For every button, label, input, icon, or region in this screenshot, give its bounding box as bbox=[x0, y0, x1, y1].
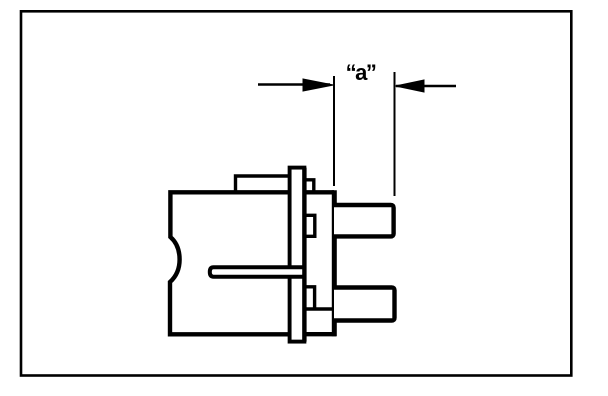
step top-right of flange bbox=[305, 180, 314, 191]
dimension arrow left bbox=[258, 79, 334, 91]
flange right edge over rod bbox=[302, 168, 306, 342]
upper clip tab bbox=[305, 215, 315, 236]
mounting tab top-left bbox=[236, 176, 291, 192]
lower tab bottom line to face bbox=[305, 307, 337, 310]
terminal blade top bbox=[334, 205, 394, 236]
rear body right face bbox=[332, 190, 337, 336]
mounting flange plate bbox=[290, 168, 305, 342]
body bottom edge right of flange bbox=[305, 332, 336, 336]
body top edge right of flange bbox=[305, 190, 334, 194]
lower clip tab bbox=[305, 287, 315, 309]
extension line right bbox=[394, 72, 396, 196]
terminal blade bottom bbox=[334, 288, 395, 321]
extension line left bbox=[333, 76, 335, 186]
svg-text:“a”: “a” bbox=[346, 60, 376, 85]
dimension arrow right bbox=[396, 80, 457, 92]
switch body outline with break notch bbox=[170, 192, 288, 334]
plunger rod bbox=[210, 267, 305, 276]
